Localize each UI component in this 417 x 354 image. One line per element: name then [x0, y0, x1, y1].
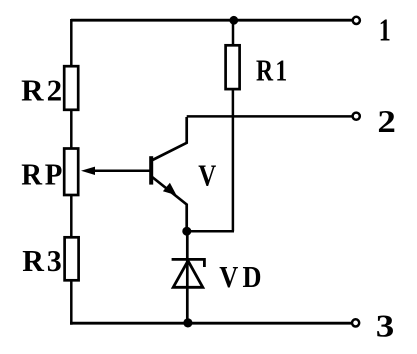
- wire horizontal from R1 branch to emitter node: [187, 230, 234, 233]
- wire collector to terminal 2: [187, 115, 352, 118]
- transistor V emitter arrowhead: [163, 183, 177, 196]
- resistor R1 body: [226, 45, 240, 89]
- svg-text:VD: VD: [219, 259, 265, 294]
- label terminal 2: [377, 103, 396, 139]
- label VD: [219, 259, 265, 294]
- zener diode VD cathode bar with bent end: [172, 259, 205, 267]
- potentiometer RP body: [64, 149, 78, 196]
- resistor R2 body: [64, 66, 78, 110]
- terminal 3 open circle: [352, 319, 359, 326]
- svg-text:1: 1: [379, 12, 391, 48]
- label terminal 3: [376, 307, 395, 343]
- transistor V emitter line: [152, 177, 187, 232]
- wire top rail from left rail to terminal 1: [71, 19, 352, 22]
- zener diode VD triangle: [173, 261, 203, 288]
- wire left rail segment above R2: [70, 19, 73, 67]
- node junction dot at bottom rail: [183, 318, 192, 327]
- wiper arrow of RP pointing left into body: [81, 167, 95, 175]
- label R1: [256, 52, 290, 87]
- label R3: [22, 243, 64, 278]
- node junction dot at top rail / R1 branch: [229, 16, 238, 25]
- svg-text:RP: RP: [21, 156, 65, 191]
- terminal 2 open circle: [353, 113, 360, 120]
- svg-text:3: 3: [376, 307, 395, 343]
- wire left rail segment below R3: [70, 279, 73, 325]
- resistor R3 body: [65, 237, 79, 280]
- label RP: [21, 156, 65, 191]
- label R2: [21, 73, 65, 108]
- wire left rail segment RP to R3: [70, 194, 73, 238]
- label V transistor: [198, 158, 216, 193]
- wire R1 top lead: [232, 20, 235, 46]
- node emitter junction dot: [182, 227, 191, 236]
- svg-text:V: V: [198, 158, 216, 193]
- wire emitter node to zener cathode: [186, 231, 189, 323]
- wire base from RP wiper to transistor base bar: [92, 170, 150, 173]
- terminal 1 open circle: [353, 17, 360, 24]
- wire left rail segment R2 to RP: [70, 109, 73, 149]
- label terminal 1: [379, 12, 391, 48]
- svg-text:R2: R2: [21, 73, 65, 108]
- svg-text:2: 2: [377, 103, 396, 139]
- wire R1 bottom lead down to emitter node level: [232, 89, 235, 231]
- transistor V collector line: [152, 117, 187, 161]
- svg-text:R1: R1: [256, 52, 290, 87]
- transistor V base bar: [149, 156, 153, 184]
- svg-text:R3: R3: [22, 243, 64, 278]
- wire bottom rail to terminal 3: [70, 322, 352, 325]
